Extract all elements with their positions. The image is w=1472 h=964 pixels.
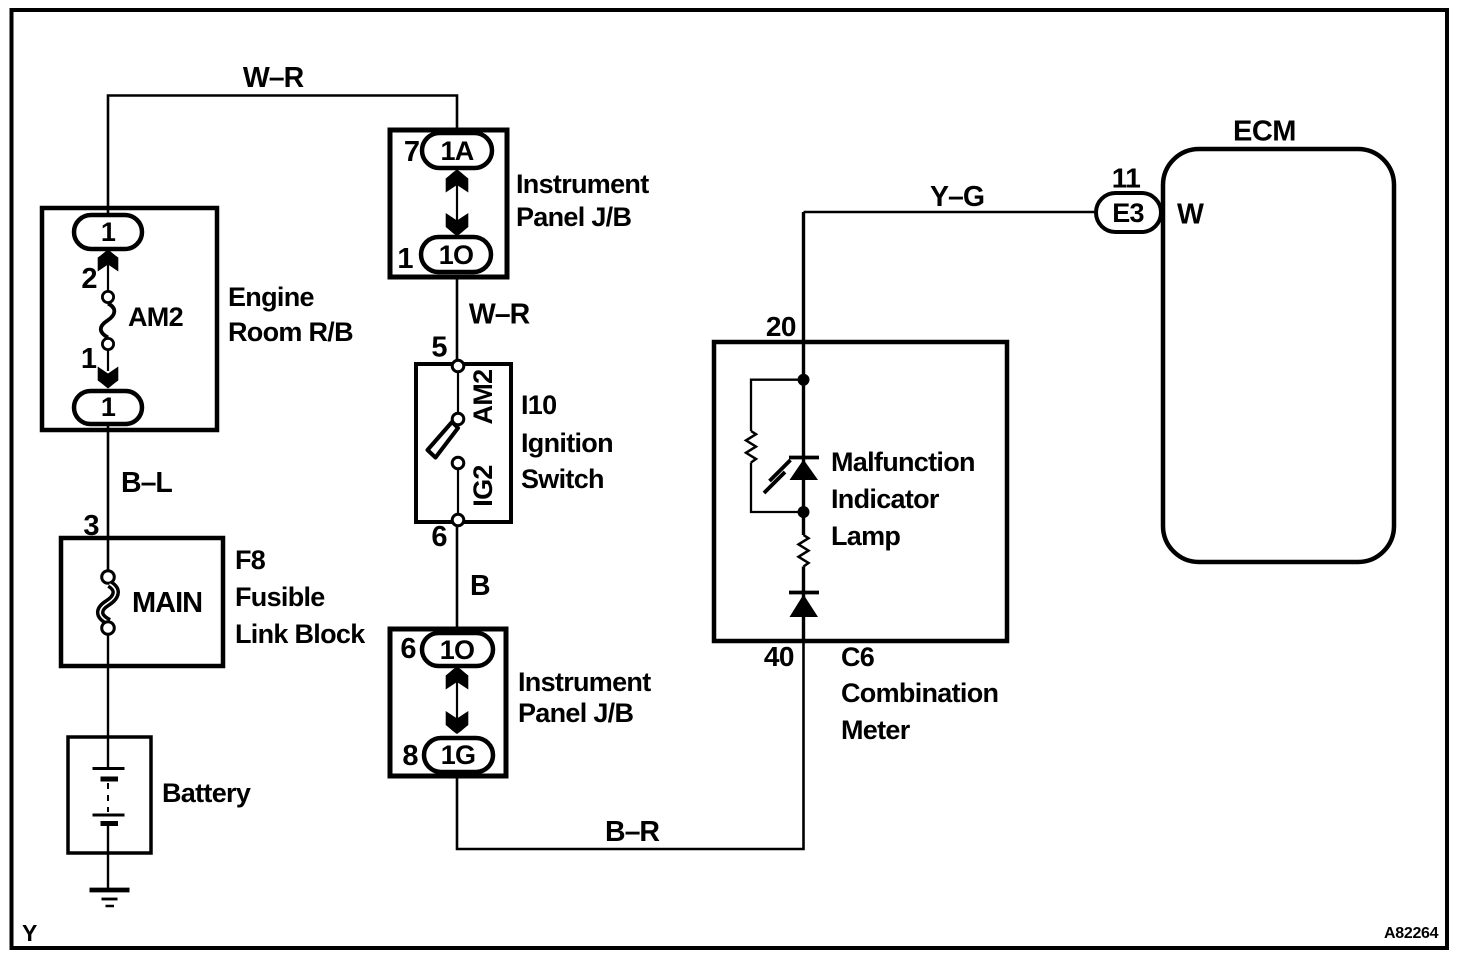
svg-text:Y: Y — [22, 920, 37, 946]
svg-text:Link Block: Link Block — [235, 619, 366, 649]
svg-text:Lamp: Lamp — [831, 521, 900, 551]
pin 1 label — [397, 243, 413, 275]
svg-text:Y–G: Y–G — [930, 181, 984, 213]
fuse AM2 — [101, 291, 183, 349]
connector arrow down — [98, 367, 119, 389]
svg-text:Instrument: Instrument — [516, 169, 649, 199]
switch lever — [428, 422, 459, 458]
connector 1G — [424, 738, 493, 772]
svg-text:40: 40 — [764, 641, 794, 672]
svg-text:Ignition: Ignition — [521, 428, 613, 458]
connector arrow down — [446, 711, 469, 734]
LED malfunction indicator lamp — [764, 458, 819, 494]
svg-text:Battery: Battery — [162, 778, 251, 808]
svg-text:A82264: A82264 — [1384, 925, 1439, 942]
svg-text:F8: F8 — [235, 545, 266, 575]
pin 2 label — [81, 263, 97, 295]
svg-text:Panel J/B: Panel J/B — [518, 698, 633, 728]
pin 3 label — [83, 510, 99, 542]
svg-text:Engine: Engine — [228, 282, 314, 312]
fusible link MAIN — [100, 571, 202, 635]
svg-text:AM2: AM2 — [468, 370, 498, 425]
pin 20 label — [766, 311, 796, 342]
svg-text:IG2: IG2 — [468, 465, 498, 506]
node junction bottom — [798, 506, 810, 518]
svg-text:8: 8 — [402, 740, 418, 772]
switch terminal (pin 6) — [452, 514, 464, 526]
svg-text:Indicator: Indicator — [831, 484, 940, 514]
svg-text:Room R/B: Room R/B — [228, 317, 353, 347]
pin 1 label — [81, 343, 97, 375]
switch contact AM2 — [452, 370, 498, 425]
wire — [457, 469, 459, 514]
svg-text:Fusible: Fusible — [235, 582, 325, 612]
svg-text:11: 11 — [1112, 163, 1141, 194]
label W-R top — [243, 62, 304, 94]
connector 1A — [422, 133, 492, 168]
svg-text:AM2: AM2 — [128, 302, 183, 332]
svg-text:1: 1 — [101, 392, 116, 422]
ignition switch I10 — [416, 364, 511, 522]
resistor (parallel branch) — [746, 380, 804, 512]
Engine Room R/B block — [42, 208, 217, 430]
label Instrument Panel J/B (lower) — [518, 667, 651, 728]
label B — [470, 570, 490, 602]
svg-text:2: 2 — [81, 263, 97, 295]
svg-text:20: 20 — [766, 311, 796, 342]
pin 11 label — [1112, 163, 1141, 194]
connector 1O (lower J/B) — [422, 633, 493, 666]
pin 6 label — [431, 521, 447, 553]
svg-text:W: W — [1177, 199, 1204, 231]
node junction top — [798, 374, 810, 386]
svg-text:Combination: Combination — [841, 678, 998, 708]
svg-text:Instrument: Instrument — [518, 667, 651, 697]
wire — [456, 681, 458, 721]
Instrument Panel J/B (lower) — [390, 629, 506, 776]
svg-text:1: 1 — [101, 217, 116, 247]
label B-R — [605, 816, 659, 848]
svg-text:Switch: Switch — [521, 464, 604, 494]
wire W-R top (battery feed to upper J/B) — [108, 96, 457, 217]
svg-text:B–L: B–L — [121, 467, 172, 499]
wire — [107, 825, 109, 889]
wire Y-G horizontal — [804, 211, 1097, 214]
wire B — [456, 526, 459, 629]
pin W label — [1177, 199, 1204, 231]
svg-text:6: 6 — [431, 521, 447, 553]
svg-text:ECM: ECM — [1233, 116, 1296, 148]
wire — [457, 372, 459, 413]
svg-text:1A: 1A — [440, 136, 473, 166]
label Instrument Panel J/B (upper) — [516, 169, 649, 232]
label C6 Combination Meter — [841, 642, 998, 745]
wire B-L — [107, 424, 110, 571]
svg-text:1G: 1G — [441, 740, 476, 770]
pin 40 label — [764, 641, 794, 672]
wire — [107, 350, 109, 372]
pin 5 label — [431, 332, 447, 364]
svg-text:Meter: Meter — [841, 715, 911, 745]
connector 1O (upper J/B) — [421, 237, 491, 272]
label Malfunction Indicator Lamp — [831, 447, 975, 551]
ground — [90, 890, 130, 906]
pin 8 label — [402, 740, 418, 772]
connector arrow up — [446, 667, 469, 690]
svg-text:W–R: W–R — [243, 62, 304, 94]
svg-text:6: 6 — [400, 633, 416, 665]
svg-text:1O: 1O — [439, 240, 474, 270]
svg-text:W–R: W–R — [469, 299, 530, 331]
svg-text:MAIN: MAIN — [132, 587, 202, 619]
svg-text:E3: E3 — [1112, 198, 1144, 228]
figure code A82264 — [1384, 925, 1439, 942]
svg-text:B: B — [470, 570, 490, 602]
ECM box — [1163, 149, 1394, 562]
connector arrow up — [446, 170, 469, 193]
connector 1 (bottom, Engine Room R/B) — [74, 391, 142, 424]
svg-text:Malfunction: Malfunction — [831, 447, 975, 477]
battery — [68, 737, 151, 853]
svg-text:5: 5 — [431, 332, 447, 364]
svg-text:B–R: B–R — [605, 816, 659, 848]
wire Y-G vertical + MIL main line — [802, 212, 805, 641]
wire B-R — [457, 641, 804, 849]
svg-text:1O: 1O — [440, 635, 475, 665]
switch terminal (pin 5) — [452, 360, 464, 372]
label I10 Ignition Switch — [521, 390, 613, 494]
label Engine Room R/B — [228, 282, 353, 347]
label W-R middle — [469, 299, 530, 331]
pin 7 label — [404, 136, 420, 168]
connector arrow down — [446, 213, 469, 236]
svg-text:C6: C6 — [841, 642, 875, 672]
svg-text:1: 1 — [397, 243, 413, 275]
wire — [107, 264, 109, 292]
fusible link block F8 — [61, 538, 223, 666]
pin 6 label — [400, 633, 416, 665]
label Y-G — [930, 181, 984, 213]
svg-text:I10: I10 — [521, 390, 556, 420]
diode — [789, 593, 819, 618]
label F8 Fusible Link Block — [235, 545, 366, 649]
svg-text:7: 7 — [404, 136, 420, 168]
combination meter C6 box — [714, 342, 1007, 641]
connector E3 — [1096, 193, 1161, 232]
connector 1 (top, Engine Room R/B) — [74, 215, 142, 249]
label Battery — [162, 778, 251, 808]
connector arrow up — [98, 250, 119, 272]
label B-L — [121, 467, 172, 499]
svg-text:1: 1 — [81, 343, 97, 375]
Instrument Panel J/B (upper) — [390, 130, 507, 277]
label ECM — [1233, 116, 1296, 148]
wire — [107, 635, 109, 769]
svg-text:Panel J/B: Panel J/B — [516, 202, 631, 232]
wire — [456, 184, 458, 224]
switch contact IG2 — [452, 457, 498, 507]
page code Y — [22, 920, 37, 946]
wire W-R middle — [456, 277, 459, 360]
resistor (series) — [799, 535, 809, 567]
